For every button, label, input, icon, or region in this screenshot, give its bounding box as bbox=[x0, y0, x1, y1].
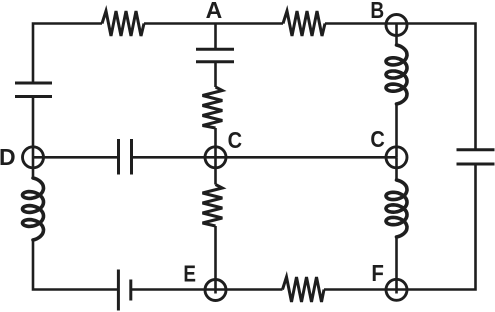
capacitor left (plates) bbox=[15, 83, 52, 97]
wire middle capacitor to node C right (through node C center) bbox=[132, 156, 397, 159]
resistor R top-left bbox=[102, 11, 144, 36]
wire coil to node C right bbox=[395, 104, 398, 157]
wire node D to middle capacitor bbox=[33, 156, 118, 159]
svg-text:B: B bbox=[370, 0, 384, 23]
wire node A down to capacitor bbox=[214, 24, 217, 50]
node F circle bbox=[386, 279, 407, 300]
svg-text:C: C bbox=[370, 125, 384, 152]
wire node B down to coil bbox=[395, 24, 398, 45]
battery cell (long and short plates) bbox=[118, 270, 130, 311]
wire right lower + bottom-right corner to resistor bbox=[324, 164, 476, 290]
wire resistor to node E bbox=[214, 226, 217, 294]
node C center circle bbox=[205, 147, 226, 168]
inductor coil B to C bbox=[386, 45, 407, 104]
wire left through node D down to coil bbox=[32, 97, 35, 179]
svg-text:C: C bbox=[228, 127, 242, 154]
resistor A-C vertical bbox=[203, 87, 223, 128]
resistor R top-right bbox=[283, 11, 325, 36]
node B circle bbox=[386, 15, 407, 36]
wire top-left + left upper segment bbox=[33, 24, 102, 84]
wire node C right down to coil bbox=[395, 157, 398, 180]
wire bottom middle (through node E) bbox=[132, 288, 283, 291]
svg-text:D: D bbox=[0, 144, 16, 170]
capacitor middle (plates) bbox=[119, 139, 132, 175]
wire top-right corner + right upper segment bbox=[325, 24, 476, 150]
svg-text:E: E bbox=[183, 262, 196, 287]
wire top middle (through node A) bbox=[144, 22, 283, 25]
node C right circle bbox=[386, 147, 407, 168]
node E circle bbox=[205, 280, 226, 301]
svg-text:A: A bbox=[206, 0, 223, 23]
inductor coil C to F bbox=[386, 180, 407, 237]
wire capacitor to resistor bbox=[214, 62, 217, 87]
svg-text:F: F bbox=[371, 260, 384, 286]
resistor C-E vertical bbox=[203, 185, 223, 227]
node D circle bbox=[23, 147, 44, 168]
resistor R bottom bbox=[283, 277, 325, 302]
wire bottom-left corner segment bbox=[33, 240, 117, 290]
capacitor below A (plates) bbox=[196, 49, 234, 62]
capacitor right (plates) bbox=[457, 150, 495, 164]
wire resistor through node C center bbox=[214, 128, 217, 185]
wire coil to node F bbox=[395, 237, 398, 294]
inductor coil left (below D) bbox=[23, 178, 44, 240]
